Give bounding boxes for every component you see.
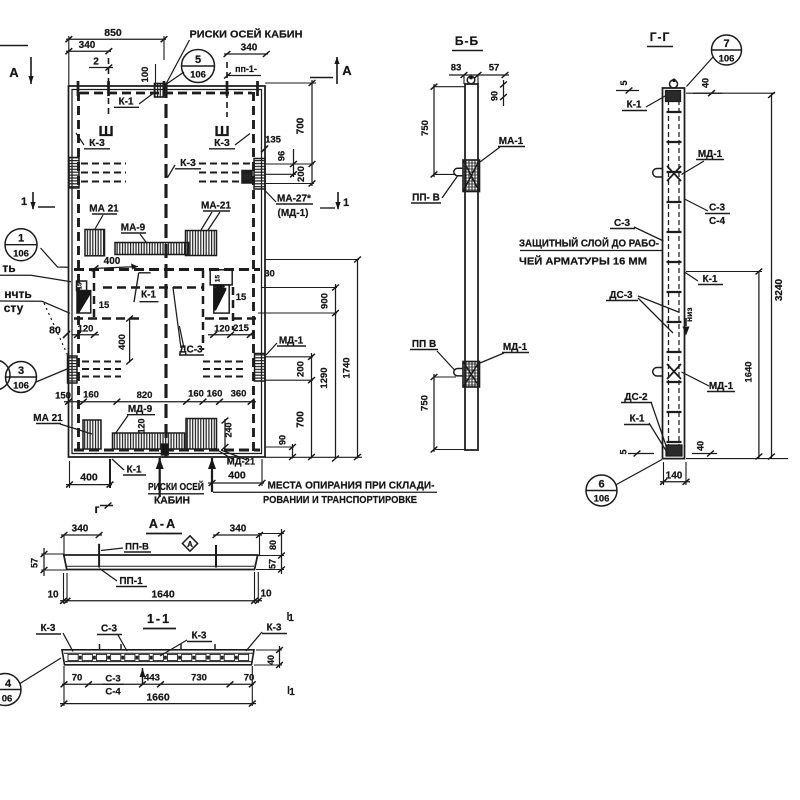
embed plate MA-27 — [242, 171, 252, 184]
hollow cells 1-1 — [68, 654, 78, 660]
svg-text:К-3: К-3 — [192, 631, 207, 642]
X cross lower G-G — [667, 364, 681, 379]
svg-text:ПП-В: ПП-В — [125, 542, 149, 553]
svg-text:750: 750 — [420, 120, 431, 136]
dashed rows upper left — [81, 162, 126, 164]
svg-text:ЧЕЙ АРМАТУРЫ 16 ММ: ЧЕЙ АРМАТУРЫ 16 ММ — [519, 255, 647, 268]
hatched bar MA-9 lower — [113, 433, 185, 449]
dim 200 lower right — [311, 353, 313, 459]
svg-text:200: 200 — [296, 166, 307, 182]
svg-text:МД-1: МД-1 — [709, 381, 734, 392]
leader MD-1 right — [266, 343, 277, 355]
svg-text:МД-9: МД-9 — [128, 404, 153, 415]
dotted leader lower — [44, 303, 68, 356]
panel bottom dashed line — [74, 449, 260, 452]
leader DS-3 G-G b — [638, 298, 673, 333]
cell separators 1-1 — [79, 656, 82, 660]
svg-text:3: 3 — [18, 365, 24, 377]
svg-text:106: 106 — [190, 70, 206, 81]
svg-text:К-3: К-3 — [89, 137, 105, 149]
section marker A right — [310, 77, 333, 79]
dim 400 vertical left cabin — [129, 318, 131, 363]
leader DS-2 G-G — [651, 402, 667, 447]
leader K-3 left 1-1 — [63, 633, 73, 652]
dim 750 lower B-B — [433, 374, 435, 452]
svg-text:С-3: С-3 — [614, 218, 631, 229]
svg-text:15: 15 — [77, 282, 84, 290]
svg-text:15: 15 — [99, 300, 110, 311]
svg-text:1: 1 — [288, 613, 294, 624]
svg-text:МА-1: МА-1 — [499, 136, 524, 147]
svg-text:135: 135 — [265, 135, 282, 146]
svg-text:80: 80 — [49, 325, 61, 337]
svg-text:06: 06 — [2, 694, 13, 705]
lifting loop top B-B — [467, 76, 475, 84]
svg-text:РОВАНИИ И ТРАНСПОРТИРОВКЕ: РОВАНИИ И ТРАНСПОРТИРОВКЕ — [263, 495, 417, 506]
leader K-3 mid 1-1 — [160, 640, 187, 656]
leader circle 6 — [617, 460, 663, 485]
dashed rows lower left — [82, 360, 121, 362]
svg-text:г: г — [95, 502, 100, 516]
svg-text:140: 140 — [666, 471, 683, 482]
leader K-1 mid G-G — [685, 272, 699, 281]
left end dim 57 A-A — [43, 548, 45, 576]
rib box left lower — [77, 291, 91, 313]
svg-text:57: 57 — [268, 559, 278, 569]
dim 850 — [66, 38, 166, 40]
leader MA-21 upper left — [95, 215, 103, 229]
svg-text:700: 700 — [296, 117, 307, 134]
hatched bar MA-21 lower left — [83, 420, 101, 449]
leader MA-27 — [265, 190, 277, 202]
leader MA-1 upper B-B — [480, 147, 500, 162]
svg-text:пп-1-: пп-1- — [235, 64, 257, 74]
svg-text:нчть: нчть — [4, 287, 31, 301]
leader mesta opiraniya — [213, 491, 437, 493]
dim 1660 1-1 — [60, 703, 256, 705]
hatched bar MA-21 lower right — [186, 419, 217, 450]
leader MD-1 upper G-G — [682, 161, 705, 175]
svg-text:2: 2 — [93, 57, 99, 68]
svg-text:МД-1: МД-1 — [698, 149, 723, 160]
leader cut text stu — [0, 301, 70, 313]
callout circle 1/106 — [5, 229, 37, 261]
embed block upper B-B — [463, 160, 480, 192]
svg-text:400: 400 — [117, 334, 128, 350]
ext line top right — [265, 82, 316, 84]
X cross upper G-G — [667, 166, 681, 181]
dim 1740 — [357, 260, 359, 459]
svg-text:106: 106 — [13, 381, 29, 392]
svg-text:400: 400 — [80, 472, 98, 484]
callout circle 6/106 — [586, 475, 617, 506]
hook lower G-G — [653, 368, 663, 377]
svg-text:120: 120 — [78, 324, 94, 335]
svg-text:ЗАЩИТНЫЙ СЛОЙ ДО РАБО-: ЗАЩИТНЫЙ СЛОЙ ДО РАБО- — [519, 237, 659, 250]
svg-text:ДС-2: ДС-2 — [624, 392, 648, 403]
svg-text:1740: 1740 — [342, 357, 353, 378]
dim 96 — [293, 149, 295, 177]
dim 1640 G-G — [758, 272, 760, 459]
svg-text:ПП- В: ПП- В — [412, 193, 440, 204]
leader DS-3 a — [173, 287, 181, 348]
ext line bottom right — [265, 456, 362, 458]
svg-text:1: 1 — [21, 196, 27, 208]
svg-text:МА-9: МА-9 — [121, 223, 146, 234]
svg-text:100: 100 — [140, 67, 151, 83]
panel dashed line y318 right — [205, 317, 257, 320]
cabin dashed vertical left — [93, 270, 96, 318]
risk tick right A-A — [215, 545, 217, 568]
svg-text:С-3: С-3 — [709, 203, 726, 214]
leader MA-21 lower left — [60, 424, 92, 434]
svg-text:160: 160 — [83, 390, 99, 401]
callout flag K-1 center — [139, 272, 151, 274]
dim 400 bottom right — [208, 482, 264, 484]
svg-text:ПП В: ПП В — [412, 339, 436, 350]
svg-text:КАБИН: КАБИН — [154, 496, 190, 507]
svg-text:340: 340 — [241, 43, 258, 54]
panel inner dashed contour left — [77, 92, 80, 452]
risk tick left A-A — [98, 544, 100, 568]
svg-text:400: 400 — [228, 470, 246, 482]
svg-text:5: 5 — [619, 80, 629, 85]
partial circle left edge — [0, 360, 10, 390]
leader circle 4 — [20, 658, 61, 684]
panel inner dashed contour top — [80, 92, 252, 95]
svg-text:215: 215 — [233, 323, 250, 334]
hatched bar MA-21 upper right — [186, 231, 217, 256]
leader MD-21 b — [221, 450, 247, 460]
svg-text:5: 5 — [195, 54, 201, 66]
svg-text:МД-1: МД-1 — [279, 336, 304, 347]
svg-text:С-4: С-4 — [105, 687, 121, 698]
svg-text:400: 400 — [104, 256, 121, 267]
svg-text:340: 340 — [79, 40, 96, 51]
embed right wall lower — [255, 354, 266, 382]
leader MA-21 upper right b — [208, 212, 220, 230]
svg-text:РИСКИ ОСЕЙ КАБИН: РИСКИ ОСЕЙ КАБИН — [190, 28, 303, 41]
svg-text:С-3: С-3 — [101, 624, 118, 635]
svg-text:10: 10 — [260, 589, 272, 600]
callout circle 7/106 — [712, 35, 742, 65]
svg-text:1: 1 — [18, 233, 24, 245]
leader zashchitny — [520, 250, 663, 252]
leader K-3 right 1-1 — [246, 632, 262, 651]
svg-text:МА 21: МА 21 — [89, 204, 119, 215]
hook upper G-G — [653, 169, 663, 178]
leader riski top — [167, 40, 190, 83]
callout circle 4/106 — [0, 674, 21, 706]
cabin dashed vertical right b — [232, 287, 235, 330]
svg-text:70: 70 — [72, 673, 83, 684]
svg-text:57: 57 — [489, 63, 500, 74]
beam A-A — [64, 555, 258, 570]
svg-text:1640: 1640 — [744, 361, 755, 382]
svg-text:С-3: С-3 — [105, 674, 120, 685]
rib box left upper — [77, 281, 87, 291]
dim row 1-1 — [62, 683, 254, 685]
leader MA-21 upper right a — [201, 212, 212, 230]
svg-text:120: 120 — [214, 324, 230, 335]
leader C-3 right G-G — [685, 199, 709, 211]
svg-text:А: А — [187, 540, 193, 549]
section marker A left — [0, 45, 28, 47]
svg-text:40: 40 — [266, 655, 276, 665]
dim row bottom of plan — [64, 401, 256, 403]
svg-text:К-1: К-1 — [119, 97, 134, 108]
dim 400 bottom left — [66, 484, 112, 486]
dim 340 A-A right — [213, 534, 262, 536]
svg-text:106: 106 — [13, 249, 29, 260]
leader DS-3 G-G a — [638, 296, 679, 312]
dashed rows upper right — [199, 162, 252, 164]
svg-text:120: 120 — [137, 418, 147, 433]
svg-text:ть: ть — [2, 261, 15, 275]
dim 750 upper B-B — [433, 84, 435, 177]
embed right wall upper — [254, 159, 265, 190]
dashed rows lower right — [203, 360, 247, 362]
svg-text:340: 340 — [230, 524, 247, 535]
svg-text:106: 106 — [594, 494, 610, 505]
dim 120 215 right — [208, 334, 253, 336]
svg-text:1: 1 — [289, 687, 295, 698]
svg-text:700: 700 — [296, 411, 307, 428]
dark blob bottom G-G — [666, 445, 682, 456]
right end dims 80 57 A-A — [281, 529, 283, 574]
embed K-1 top center — [155, 84, 167, 98]
svg-text:850: 850 — [104, 27, 122, 39]
svg-text:443: 443 — [144, 673, 160, 684]
dim 120 left — [72, 334, 99, 336]
svg-text:ПП-1: ПП-1 — [119, 576, 143, 587]
leader MA-9 lower — [115, 416, 128, 435]
svg-text:160: 160 — [188, 389, 204, 400]
svg-text:5: 5 — [619, 449, 629, 454]
svg-text:А: А — [342, 63, 352, 78]
svg-text:90: 90 — [490, 91, 500, 101]
svg-text:МА-27*: МА-27* — [277, 194, 311, 205]
ext line 1640 top — [686, 271, 762, 273]
leader circle 5 — [167, 72, 185, 84]
svg-text:С-4: С-4 — [709, 216, 726, 227]
svg-text:(МД-1): (МД-1) — [277, 208, 308, 219]
svg-text:МА-21: МА-21 — [201, 201, 231, 212]
svg-text:РИСКИ ОСЕЙ: РИСКИ ОСЕЙ — [148, 480, 204, 493]
risk arrow bottom left — [159, 458, 161, 497]
embed left wall lower — [68, 356, 78, 383]
dim 340 top right — [224, 53, 268, 55]
corbel triangle left — [77, 291, 90, 313]
svg-text:57: 57 — [30, 558, 40, 568]
svg-text:200: 200 — [296, 361, 307, 377]
dim 90 lower right — [292, 444, 294, 459]
svg-text:К-3: К-3 — [41, 623, 56, 634]
svg-text:1-1: 1-1 — [147, 612, 171, 626]
dark blob top G-G — [666, 91, 681, 102]
leader cut text t — [0, 275, 71, 281]
svg-text:30: 30 — [264, 269, 275, 280]
svg-text:А: А — [9, 65, 19, 80]
leader K-1 top G-G — [646, 96, 666, 108]
dim 700/200 upper right — [311, 80, 313, 186]
dim 40 right 1-1 — [279, 646, 281, 668]
svg-text:К-3: К-3 — [214, 137, 230, 149]
grade diamond A-A — [182, 536, 197, 551]
svg-text:К-3: К-3 — [267, 623, 282, 634]
leader K-1 bottom G-G — [649, 423, 668, 453]
svg-text:сту: сту — [4, 301, 24, 315]
svg-text:МД-1: МД-1 — [503, 342, 528, 353]
svg-text:Г-Г: Г-Г — [650, 30, 671, 44]
callout circle 5/106 — [182, 50, 215, 83]
svg-text:А-А: А-А — [149, 517, 177, 531]
svg-text:4: 4 — [5, 678, 12, 690]
panel inner dashed contour right — [252, 92, 255, 452]
corbel triangle right — [214, 288, 226, 311]
panel outline outer — [69, 86, 266, 457]
dim 3240 G-G — [771, 93, 773, 458]
panel dashed line y318 left — [74, 317, 139, 320]
svg-text:7: 7 — [723, 38, 729, 50]
risk tick marks on top edge — [77, 81, 80, 96]
svg-text:15: 15 — [236, 292, 247, 303]
lifting loop top G-G — [670, 80, 678, 88]
stirrup ticks 1-1 — [99, 644, 101, 651]
panel outline inner — [72, 90, 262, 454]
hatched bar MA-9 upper — [115, 243, 189, 255]
embed black mark bottom center — [161, 444, 168, 455]
ext line bottom G-G — [686, 458, 788, 460]
hook lower B-B — [454, 369, 464, 376]
risk arrow bottom right — [211, 458, 213, 492]
svg-text:96: 96 — [277, 151, 288, 162]
svg-text:730: 730 — [191, 673, 207, 684]
svg-text:ДС-3: ДС-3 — [179, 345, 203, 356]
small arrow G-G — [683, 327, 690, 336]
cabin dashed vertical right a — [202, 270, 205, 350]
beam inner line A-A — [67, 565, 254, 567]
leader MD-21 a — [214, 448, 234, 460]
hook upper B-B — [454, 168, 464, 175]
svg-text:106: 106 — [719, 54, 735, 65]
svg-text:К-1: К-1 — [127, 465, 142, 476]
svg-text:1660: 1660 — [146, 692, 170, 704]
svg-text:1290: 1290 — [319, 367, 330, 388]
hatched bar MA-21 upper left — [85, 230, 105, 256]
panel mid dashed line — [74, 268, 260, 271]
dim 90 B-B — [503, 80, 505, 106]
leader circle 1 — [41, 248, 69, 267]
ext line top G-G to 3240 — [686, 92, 775, 94]
leader C-3 1-1 — [118, 635, 127, 651]
svg-text:750: 750 — [420, 395, 431, 411]
axis 2 dashed line — [108, 58, 110, 117]
svg-text:83: 83 — [451, 63, 462, 74]
svg-text:3240: 3240 — [774, 278, 785, 301]
svg-text:360: 360 — [231, 389, 247, 400]
dim 900 — [335, 284, 337, 316]
embed block lower B-B — [463, 362, 480, 388]
dim 340 top left — [66, 50, 111, 52]
dim 1290 — [335, 313, 337, 459]
leader PP-1 A-A — [100, 569, 118, 582]
beam inner lines 1-1 — [64, 652, 253, 654]
svg-text:40: 40 — [701, 78, 711, 88]
svg-text:6: 6 — [598, 479, 604, 491]
leader circle 3 — [36, 369, 67, 382]
leader PP-V upper B-B — [442, 176, 458, 198]
svg-text:160: 160 — [207, 389, 223, 400]
leader circle 7 — [687, 57, 714, 87]
column B-B — [465, 84, 478, 450]
dim 83 57 — [449, 74, 509, 76]
beam 1-1 — [62, 650, 254, 665]
column G-G — [663, 88, 685, 459]
svg-text:К-1: К-1 — [627, 100, 642, 111]
reinforcement cage G-G — [668, 92, 670, 455]
embed left wall upper — [69, 158, 79, 189]
svg-text:ДС-3: ДС-3 — [609, 290, 633, 301]
svg-text:К-1: К-1 — [703, 274, 718, 285]
leader MD-1 lower G-G — [682, 372, 710, 386]
svg-text:340: 340 — [72, 524, 89, 535]
leader C-3 left G-G — [634, 227, 664, 241]
rib box right upper — [210, 270, 232, 285]
svg-text:К-3: К-3 — [180, 157, 196, 169]
leader DS-3 b — [179, 326, 184, 348]
axis pp-1 dashed line — [226, 62, 228, 117]
svg-text:МЕСТА ОПИРАНИЯ ПРИ СКЛАДИ-: МЕСТА ОПИРАНИЯ ПРИ СКЛАДИ- — [268, 480, 435, 491]
svg-text:90: 90 — [278, 435, 288, 445]
svg-text:10: 10 — [47, 590, 59, 601]
svg-text:80: 80 — [268, 540, 278, 550]
svg-text:900: 900 — [320, 293, 331, 309]
svg-text:1640: 1640 — [151, 589, 175, 601]
dim 340 A-A left — [61, 534, 102, 536]
svg-text:820: 820 — [137, 390, 153, 401]
svg-text:15: 15 — [215, 275, 222, 283]
svg-text:1: 1 — [343, 197, 349, 209]
svg-text:К-1: К-1 — [630, 414, 645, 425]
svg-text:Б-Б: Б-Б — [455, 34, 479, 48]
center axis dashed line — [164, 84, 167, 457]
leader MA-9 upper — [140, 234, 147, 244]
ext line y259 — [265, 259, 359, 261]
svg-text:МА 21: МА 21 — [33, 413, 63, 424]
svg-text:К-1: К-1 — [141, 290, 156, 301]
svg-text:150: 150 — [55, 391, 71, 402]
dim 1640 A-A — [60, 600, 262, 602]
up arrow 443 — [142, 668, 144, 684]
callout circle 3/106 — [6, 362, 37, 393]
leader PP-V A-A — [101, 548, 123, 551]
leader PP-V lower B-B — [437, 351, 455, 370]
rib box right lower — [214, 285, 229, 313]
panel dashed line y287 — [103, 286, 203, 289]
svg-text:40: 40 — [696, 441, 706, 451]
leader MD-1 lower B-B — [480, 353, 504, 363]
